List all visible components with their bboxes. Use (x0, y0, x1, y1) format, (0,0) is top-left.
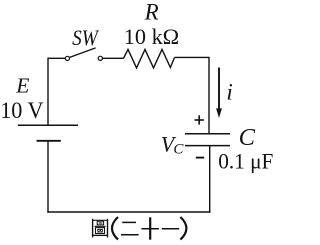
capacitor C top plate (185, 133, 230, 135)
capacitor C bottom plate (185, 145, 230, 147)
svg-text:i: i (226, 80, 232, 105)
wire left vertical lower (47, 141, 49, 213)
svg-text:0.1 μF: 0.1 μF (218, 149, 273, 174)
svg-text:C: C (173, 142, 184, 158)
svg-text:C: C (239, 124, 256, 151)
caption close paren (180, 217, 186, 240)
caption character shi (ten) (141, 217, 159, 239)
svg-text:R: R (144, 0, 159, 25)
switch SW right contact circle (98, 56, 102, 60)
svg-text:SW: SW (72, 25, 99, 50)
svg-text:10 kΩ: 10 kΩ (124, 24, 179, 49)
battery E short plate (negative) (37, 140, 61, 142)
switch SW blade (69, 48, 95, 58)
wire switch to resistor (102, 57, 123, 59)
wire top-left horizontal (48, 57, 65, 59)
current arrow i head (216, 108, 222, 118)
resistor R1 zigzag body (123, 49, 174, 68)
caption character yi (one) (162, 228, 179, 230)
switch SW left contact circle (65, 56, 69, 60)
wire left vertical upper (47, 58, 49, 126)
capacitor minus sign (196, 157, 204, 159)
svg-text:E: E (15, 74, 29, 98)
wire resistor to top-right corner (175, 56, 210, 58)
wire bottom horizontal (47, 211, 210, 213)
wire right vertical upper (208, 57, 210, 133)
current arrow i shaft (218, 68, 220, 111)
caption open paren (112, 217, 118, 240)
caption character er (two) (121, 222, 139, 234)
svg-text:10 V: 10 V (0, 98, 44, 123)
battery E long plate (positive) (18, 124, 78, 126)
caption character Tu (figure) (93, 219, 108, 238)
capacitor plus sign (195, 115, 204, 124)
wire right vertical lower (209, 146, 211, 213)
